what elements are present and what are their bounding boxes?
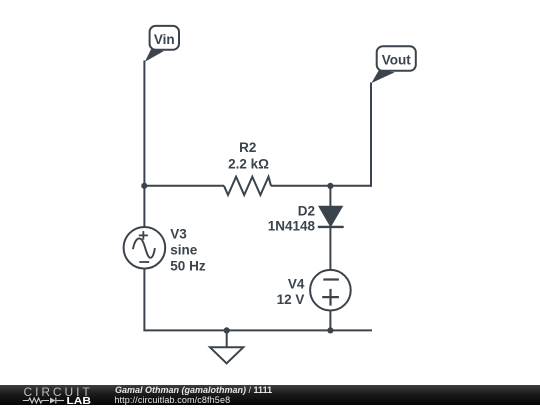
node junction dot at ground: [224, 327, 230, 333]
svg-text:Vout: Vout: [382, 52, 411, 67]
svg-text:LAB: LAB: [67, 395, 92, 405]
svg-text:V4: V4: [288, 277, 305, 292]
node junction dot at R2/D2/Vout: [327, 183, 333, 189]
svg-text:Vin: Vin: [154, 32, 175, 47]
svg-text:R2: R2: [239, 140, 256, 155]
node junction dot at V4/rail: [327, 327, 333, 333]
node junction dot at Vin/R2: [141, 183, 147, 189]
V3 sine wave: [133, 238, 155, 257]
svg-text:50 Hz: 50 Hz: [170, 259, 206, 274]
wire middle horizontal right (R2 to corner): [271, 185, 371, 187]
wire diode top lead: [329, 186, 331, 208]
svg-text:12 V: 12 V: [277, 292, 305, 307]
V4 minus sign: [323, 278, 339, 280]
wire right vertical (Vout to middle): [370, 83, 372, 187]
wire left vertical top (Vin to V3): [143, 61, 145, 228]
svg-text:D2: D2: [298, 203, 315, 218]
ground: [210, 347, 243, 363]
net label Vin: [145, 26, 179, 62]
diode D2: [318, 207, 344, 227]
wire middle horizontal left (node to R2): [143, 185, 224, 187]
svg-text:http://circuitlab.com/c8fh5e8: http://circuitlab.com/c8fh5e8: [114, 395, 230, 405]
net label Vout: [371, 46, 415, 83]
svg-text:V3: V3: [170, 226, 187, 241]
CircuitLab logo: [23, 385, 92, 407]
V4 plus sign: [322, 296, 339, 298]
svg-text:Gamal Othman (gamalothman) / 1: Gamal Othman (gamalothman) / 1111: [115, 385, 272, 395]
wire bottom rail: [143, 329, 372, 331]
resistor R2: [224, 177, 271, 195]
voltage source V4 (battery 12V): [310, 270, 351, 311]
wire V4 to rail: [329, 311, 331, 331]
V3 plus sign: [139, 234, 148, 236]
V3 minus sign: [139, 261, 149, 263]
svg-text:1N4148: 1N4148: [268, 218, 316, 233]
wire ground stem: [226, 330, 228, 347]
wire diode to V4: [329, 227, 331, 271]
svg-text:2.2 kΩ: 2.2 kΩ: [228, 157, 269, 172]
svg-text:sine: sine: [170, 242, 198, 257]
wire left vertical bottom (V3 to rail): [143, 269, 145, 331]
voltage source V3 (sine): [124, 227, 166, 269]
